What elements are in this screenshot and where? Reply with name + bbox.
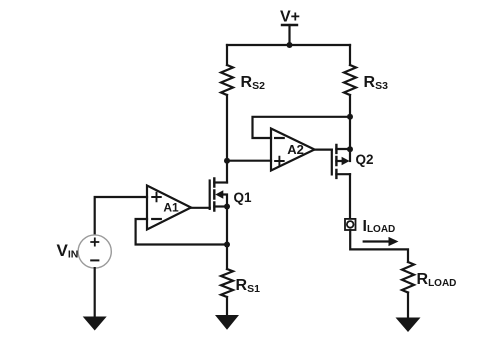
node A2 feedback junction [347,114,353,120]
wire RS2 to node A [226,95,228,161]
node A (A2 + tap) [224,158,230,164]
svg-text:A2: A2 [287,142,304,157]
resistor RS1 [221,269,233,297]
svg-text:ILOAD: ILOAD [363,218,396,235]
svg-text:Q2: Q2 [356,152,374,167]
svg-text:RLOAD: RLOAD [417,271,457,289]
wire A2 output to Q2 gate [315,149,332,151]
node Q1 source / RS1 junction [224,242,230,248]
op-amp A2 [271,129,315,171]
svg-text:RS2: RS2 [241,74,266,92]
ground (VIN) [83,317,107,331]
wire node A to A2 + input [227,160,271,162]
wire node to RS1 [226,245,228,270]
ground (RLOAD) [396,318,421,333]
wire A1 output to Q1 gate [191,207,210,209]
node rail junction [287,42,293,48]
svg-text:A1: A1 [163,200,179,214]
svg-text:RS1: RS1 [236,277,261,295]
svg-text:Q1: Q1 [234,190,253,205]
arrow ILOAD direction [364,237,399,246]
resistor RLOAD [402,262,414,293]
wire A1 - feedback [136,219,227,245]
source VIN [78,235,111,268]
resistor RS3 [344,65,356,95]
wire Q1 source down to node [226,207,228,245]
svg-text:V+: V+ [280,9,300,26]
transistor Q2 [332,145,353,178]
current probe ILOAD [345,219,356,230]
op-amp A1 [147,186,191,230]
wire VIN to ground [94,268,96,316]
wire VIN to A1 + input [95,197,147,235]
wire node A to Q1 drain [226,161,228,183]
wire Q2 source to current probe [349,174,351,219]
svg-text:VIN: VIN [57,241,79,260]
wire RLOAD to ground [407,293,409,318]
wire top rail [227,44,350,46]
power V+ [282,25,297,45]
wire V+ rail to RS2 [226,45,228,65]
wire RS3 to Q2 drain [349,95,351,149]
svg-text:RS3: RS3 [364,74,389,92]
transistor Q1 [210,179,230,211]
wire probe to RLOAD [350,230,408,262]
resistor RS2 [221,65,233,95]
wire A2 - feedback to Q2 drain node [253,117,351,138]
wire V+ rail to RS3 [349,45,351,65]
wire RS1 to ground [226,297,228,315]
ground (RS1) [215,315,239,330]
